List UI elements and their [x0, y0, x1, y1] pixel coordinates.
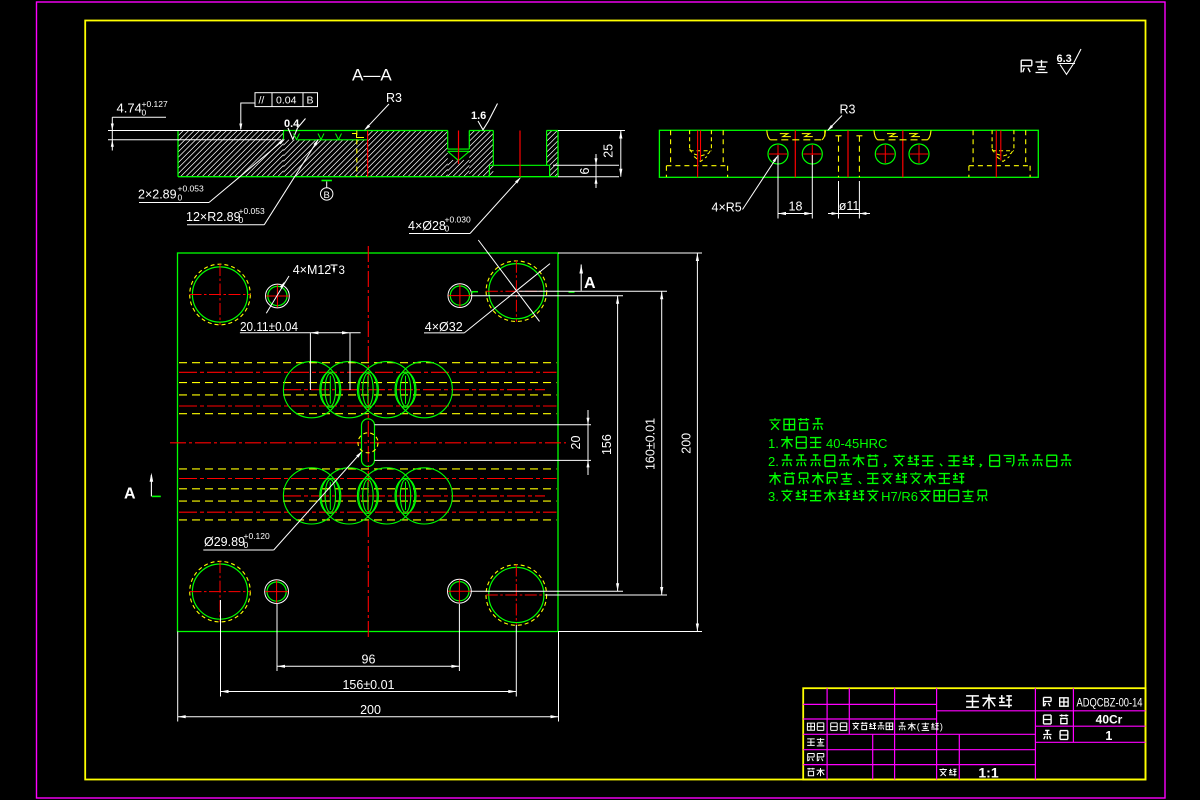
svg-text:ø11: ø11 — [839, 199, 860, 213]
svg-text:1.6: 1.6 — [471, 110, 486, 122]
svg-text:3: 3 — [339, 265, 345, 277]
svg-text:0: 0 — [445, 224, 450, 234]
svg-text:4×Ø28: 4×Ø28 — [408, 219, 446, 233]
svg-text:200: 200 — [680, 433, 694, 454]
svg-text:40Cr: 40Cr — [1096, 713, 1123, 727]
svg-text:3.: 3. — [768, 489, 779, 504]
svg-text:A: A — [584, 275, 596, 292]
svg-text:R3: R3 — [840, 103, 856, 117]
svg-text:B: B — [307, 95, 314, 107]
svg-text:20: 20 — [569, 436, 583, 450]
svg-text:40-45HRC: 40-45HRC — [826, 436, 887, 451]
svg-text:0: 0 — [244, 540, 249, 550]
svg-text:2.: 2. — [768, 454, 779, 469]
svg-text://: // — [259, 95, 265, 107]
svg-text:96: 96 — [362, 653, 376, 667]
svg-text:Ø29.89: Ø29.89 — [204, 535, 245, 549]
svg-text:R3: R3 — [386, 91, 402, 105]
svg-text:0: 0 — [142, 108, 147, 118]
svg-text:): ) — [940, 722, 943, 732]
svg-text:20.11±0.04: 20.11±0.04 — [240, 320, 298, 334]
svg-text:6: 6 — [578, 167, 592, 174]
svg-text:0.04: 0.04 — [276, 95, 297, 107]
svg-text:25: 25 — [602, 144, 616, 158]
svg-text:H7/R6: H7/R6 — [881, 489, 918, 504]
svg-text:4×R5: 4×R5 — [712, 201, 742, 215]
svg-text:18: 18 — [789, 200, 803, 214]
svg-text:2×2.89: 2×2.89 — [138, 188, 177, 202]
svg-text:1: 1 — [1105, 729, 1112, 743]
svg-text:0: 0 — [239, 215, 244, 225]
svg-text:A: A — [124, 486, 136, 503]
svg-text:ADQCBZ-00-14: ADQCBZ-00-14 — [1077, 695, 1143, 709]
svg-text:156: 156 — [600, 434, 614, 455]
svg-text:4×M12: 4×M12 — [293, 263, 332, 277]
svg-text:4.74: 4.74 — [117, 101, 142, 116]
svg-text:B: B — [324, 190, 330, 201]
svg-text:1:1: 1:1 — [978, 764, 998, 780]
svg-text:160±0.01: 160±0.01 — [644, 418, 658, 470]
svg-text:0: 0 — [178, 193, 183, 203]
svg-text:200: 200 — [360, 703, 381, 717]
svg-text:4×Ø32: 4×Ø32 — [425, 320, 463, 334]
svg-text:1.: 1. — [768, 436, 779, 451]
svg-text:12×R2.89: 12×R2.89 — [186, 210, 241, 224]
svg-text:A—A: A—A — [352, 66, 392, 85]
svg-text:(: ( — [917, 722, 920, 732]
svg-text:156±0.01: 156±0.01 — [342, 678, 394, 692]
